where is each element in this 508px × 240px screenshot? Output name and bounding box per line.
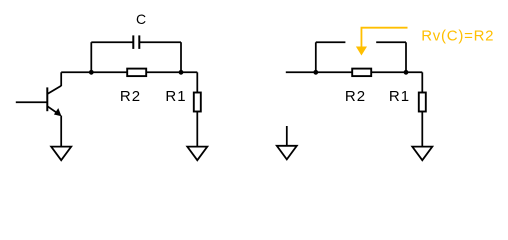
wire: base lead [16, 101, 48, 103]
ground (right R1) [412, 147, 432, 161]
node D junction dot (right) [404, 70, 409, 75]
resistor R2 (right, horizontal) [352, 69, 371, 77]
ground (emitter) [51, 147, 71, 161]
svg-text:R2: R2 [345, 88, 366, 105]
ground (R1) [187, 147, 207, 161]
wire: R1 to ground [196, 112, 198, 147]
transistor Q1 emitter diagonal [47, 106, 59, 114]
capacitor C plates [133, 35, 139, 49]
wire: open lead (right of removed C) [376, 41, 406, 43]
svg-text:R1: R1 [389, 88, 410, 105]
wire: emitter down to ground [60, 116, 62, 147]
wire: main collector node (horizontal) [61, 71, 197, 73]
transistor Q1 (NPN) [16, 86, 61, 115]
wire: left branch riser to capacitor [90, 42, 92, 72]
annotation arrowhead [356, 47, 367, 56]
resistor R1 (left circuit, vertical) [194, 93, 201, 112]
wire: right branch riser [180, 42, 182, 72]
transistor Q1 collector diagonal [47, 86, 61, 94]
svg-text:C: C [136, 11, 146, 27]
transistor Q1 emitter arrowhead [54, 108, 62, 116]
ground stub (where emitter was) [286, 126, 288, 146]
annotation arrow (orange) pointing at removed capacitor [361, 28, 407, 48]
wire: open lead (left of removed C) [316, 41, 346, 43]
wire: left branch riser [315, 42, 317, 72]
wire: right branch riser [405, 42, 407, 72]
resistor R2 (left, horizontal) [127, 69, 146, 77]
ground (stub) [277, 146, 297, 160]
svg-text:R1: R1 [165, 88, 186, 105]
resistor R1 (right circuit, vertical) [419, 93, 426, 112]
svg-text:Rv(C)=R2: Rv(C)=R2 [421, 28, 494, 45]
wire: down to R1 [196, 72, 198, 92]
transistor Q1 base bar [46, 87, 48, 111]
node B junction dot (right) [179, 70, 184, 75]
node C junction dot (left) [313, 70, 318, 75]
wire: capacitor left lead [91, 41, 133, 43]
wire: R1 to ground (right) [421, 112, 423, 147]
svg-text:R2: R2 [120, 88, 141, 105]
node A junction dot (left) [89, 70, 94, 75]
wire: capacitor right lead [139, 41, 181, 43]
wire: main node (horizontal) [286, 71, 423, 73]
wire: collector up to node [60, 72, 62, 86]
wire: down to R1 (right) [421, 72, 423, 92]
